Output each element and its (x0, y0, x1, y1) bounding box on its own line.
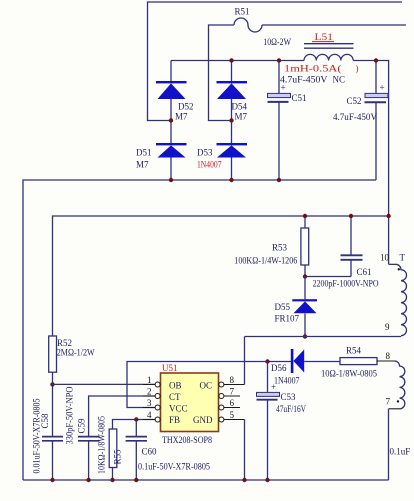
junction D53 anode rail (229, 178, 233, 182)
svg-text:THX208-SOP8: THX208-SOP8 (162, 435, 212, 445)
junction C58 ground (50, 478, 54, 482)
resistor R54 (321, 346, 377, 379)
inductor L51 (304, 32, 354, 61)
diode D56 (271, 349, 340, 386)
svg-text:T: T (400, 253, 406, 263)
svg-text:4.7uF-450V: 4.7uF-450V (333, 112, 377, 122)
svg-text:0.1uF: 0.1uF (390, 447, 411, 457)
capacitor C59 (65, 386, 100, 480)
svg-text:3: 3 (147, 398, 152, 408)
svg-text:): ) (356, 64, 359, 74)
pin 6 (219, 398, 240, 410)
svg-text:330pF-50V-NPO: 330pF-50V-NPO (65, 386, 75, 444)
svg-text:D53: D53 (197, 148, 213, 158)
junction C61 top (349, 214, 353, 218)
junction C51 top (277, 58, 281, 62)
junction C52 top (374, 58, 378, 62)
svg-text:1: 1 (147, 375, 152, 385)
svg-text:D52: D52 (178, 102, 194, 112)
svg-text:M7: M7 (136, 160, 149, 170)
svg-text:1N4007: 1N4007 (197, 160, 222, 170)
svg-text:2MΩ-1/2W: 2MΩ-1/2W (57, 347, 95, 357)
diode D54 (217, 61, 248, 122)
svg-text:L51: L51 (315, 32, 334, 42)
svg-text:+: + (271, 382, 276, 392)
wire pin stubs left (143, 385, 155, 420)
junction R53 bottom (303, 274, 307, 278)
svg-text:GND: GND (193, 415, 213, 425)
wire AC line 2 left lead (209, 25, 235, 121)
svg-text:8: 8 (386, 351, 391, 361)
IC U51 (161, 363, 219, 445)
svg-text:1mH-0.5A(: 1mH-0.5A( (284, 64, 342, 74)
resistor R55 (97, 416, 123, 480)
wire AC line 1 top (148, 2, 403, 121)
pin 1 (147, 375, 160, 387)
svg-text:VCC: VCC (169, 403, 188, 413)
junction D55 anode (303, 334, 307, 338)
svg-text:C53: C53 (281, 392, 297, 402)
pin 7 transformer (386, 397, 400, 409)
pin 8 transformer (377, 351, 395, 361)
svg-text:2: 2 (147, 387, 152, 397)
svg-text:D54: D54 (232, 102, 248, 112)
junction D51 anode rail (169, 178, 173, 182)
svg-text:10KΩ-1/8W-0805: 10KΩ-1/8W-0805 (97, 416, 107, 474)
wire VCC line (127, 362, 291, 408)
resistor R53 (234, 216, 308, 277)
svg-text:2200pF-1000V-NPO: 2200pF-1000V-NPO (313, 279, 379, 289)
junction R55 ground (110, 478, 114, 482)
svg-text:FB: FB (169, 415, 180, 425)
pin 8 (219, 375, 245, 387)
svg-text:1N4007: 1N4007 (274, 376, 300, 386)
transformer primary winding (396, 264, 407, 335)
junction R53 top (303, 214, 307, 218)
svg-text:10: 10 (380, 253, 390, 263)
svg-text:C61: C61 (357, 267, 372, 277)
svg-text:5: 5 (230, 410, 235, 420)
wire R52 to pin1 (53, 383, 156, 385)
svg-text:OC: OC (200, 380, 213, 390)
pin 5 (219, 410, 245, 422)
junction C60 ground (134, 478, 138, 482)
junction D54 cathode rail (229, 58, 233, 62)
wire DC- rail (23, 180, 376, 480)
junction mid rail T (386, 214, 390, 218)
junction AC2-bridge (229, 118, 233, 122)
capacitor C61 (305, 216, 379, 289)
diode D52 (156, 61, 194, 122)
junction C53 ground (265, 478, 269, 482)
svg-text:47uF/16V: 47uF/16V (276, 404, 306, 414)
svg-text:R54: R54 (346, 346, 362, 356)
junction pin4 C60 (134, 417, 138, 421)
resistor R51 (234, 18, 262, 32)
pin 7 (219, 387, 240, 399)
pin 3 (147, 398, 160, 410)
svg-text:C52: C52 (347, 96, 362, 106)
diode D55 (275, 277, 318, 337)
transformer aux winding (395, 361, 405, 409)
svg-text:6: 6 (230, 398, 235, 408)
svg-text:C58: C58 (40, 413, 50, 429)
capacitor C51 (268, 61, 307, 181)
junction C51 bottom (277, 178, 281, 182)
svg-text:4: 4 (147, 410, 152, 420)
svg-text:C59: C59 (77, 418, 87, 434)
diode D53 (197, 121, 247, 181)
wire aux rail (245, 336, 402, 338)
svg-text:10Ω-2W: 10Ω-2W (263, 37, 291, 47)
wire pin8 riser (244, 337, 246, 385)
capacitor C60 (126, 420, 211, 481)
pin 2 (147, 387, 160, 399)
pin 4 (147, 410, 160, 422)
wire mid rail (53, 216, 389, 336)
diode D51 (136, 121, 187, 181)
svg-text:M7: M7 (235, 112, 248, 122)
svg-text:OB: OB (169, 380, 182, 390)
capacitor C52 (347, 61, 389, 181)
svg-text:R53: R53 (272, 243, 288, 253)
svg-text:D56: D56 (271, 363, 287, 373)
svg-text:7: 7 (230, 387, 235, 397)
wire pin4 line (113, 420, 156, 430)
svg-text:0.1uF-50V-X7R-0805: 0.1uF-50V-X7R-0805 (138, 462, 210, 472)
junction C59 ground (86, 478, 90, 482)
svg-text:10Ω-1/8W-0805: 10Ω-1/8W-0805 (321, 369, 377, 379)
wire DC+ rail right (353, 61, 388, 265)
wire pin5 to ground rail (244, 420, 246, 481)
svg-text:0.01uF-50V-X7R-0805: 0.01uF-50V-X7R-0805 (32, 398, 42, 473)
junction AC1-bridge (169, 118, 173, 122)
svg-text:C51: C51 (292, 93, 307, 103)
svg-text:R51: R51 (235, 7, 250, 17)
svg-text:+: + (380, 83, 385, 93)
svg-text:9: 9 (385, 322, 390, 332)
capacitor C53 (257, 362, 307, 481)
junction pin5 ground (242, 478, 246, 482)
svg-text:U51: U51 (162, 363, 178, 373)
svg-text:7: 7 (386, 397, 391, 407)
capacitor C58 (32, 384, 64, 480)
wire DC+ rail left (171, 60, 304, 62)
svg-text:100KΩ-1/4W-1206: 100KΩ-1/4W-1206 (234, 255, 297, 265)
wire pin2 to C59 (89, 396, 155, 436)
svg-text:R55: R55 (113, 449, 123, 465)
resistor R52 (49, 336, 95, 384)
svg-text:C60: C60 (142, 447, 158, 457)
junction C53 top (265, 359, 269, 363)
pin 10 (380, 253, 396, 265)
svg-text:4.7uF-450V: 4.7uF-450V (280, 74, 328, 84)
svg-text:FR107: FR107 (275, 314, 300, 324)
svg-text:D55: D55 (275, 302, 291, 312)
wire AC line 2 right lead (262, 24, 406, 26)
junction R52 bottom (50, 382, 54, 386)
svg-text:NC: NC (333, 74, 346, 84)
svg-text:CT: CT (169, 392, 181, 402)
wire pin7 to ground (388, 409, 390, 480)
svg-text:M7: M7 (175, 112, 188, 122)
svg-text:8: 8 (230, 375, 235, 385)
wire ground rail (23, 479, 389, 481)
svg-text:D51: D51 (136, 148, 152, 158)
